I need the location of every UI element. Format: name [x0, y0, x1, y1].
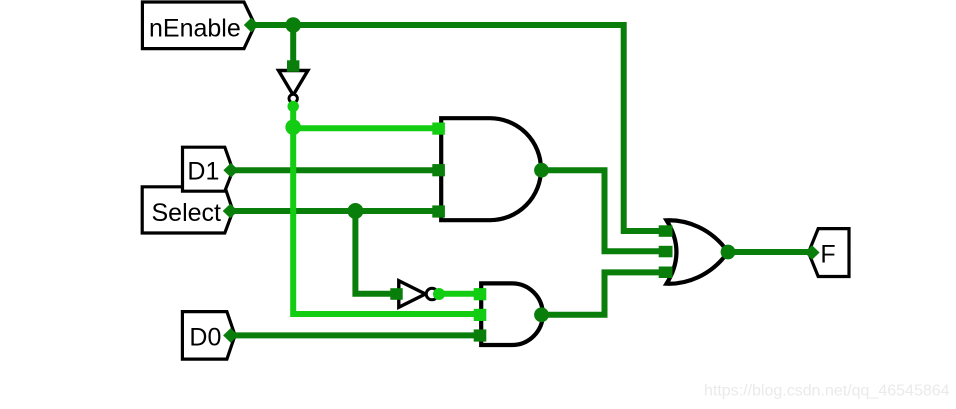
inverter NOT2 input pin — [390, 288, 402, 300]
connector diamond D1 — [223, 163, 238, 178]
svg-text:https://blog.csdn.net/qq_46545: https://blog.csdn.net/qq_46545864 — [704, 383, 950, 400]
svg-text:F: F — [820, 241, 835, 269]
svg-text:nEnable: nEnable — [149, 15, 241, 43]
inverter NOT2 output pin dot — [433, 288, 445, 300]
output label F — [809, 229, 850, 277]
wire Select branch to NOT2 input — [355, 211, 392, 294]
junction on Select wire — [347, 203, 363, 219]
wire NOT2 output to AND2 input 1 (high) — [438, 291, 479, 297]
svg-text:Select: Select — [152, 199, 222, 227]
or-gate U3 (3 inputs) — [667, 220, 729, 283]
and-gate U1 input pin 2 — [432, 164, 445, 176]
and-gate U2 output dot — [534, 307, 549, 322]
inverter NOT1 input pin — [287, 60, 299, 72]
input label D1 — [183, 147, 234, 191]
or-gate U3 input pin 3 — [659, 267, 673, 279]
wire D0 to AND2 input 3 — [227, 332, 479, 338]
connector diamond Select — [223, 204, 238, 219]
wire nEnable junction down to NOT1 input — [290, 25, 296, 66]
or-gate U3 input pin 1 — [659, 225, 673, 237]
and-gate U1 output dot — [534, 163, 549, 178]
connector diamond D0 — [223, 328, 238, 343]
junction below NOT1 (high) — [285, 119, 301, 135]
and-gate U1 input pin 3 — [432, 205, 445, 217]
wire junction to AND1 input 1 (high) — [293, 125, 438, 131]
wire AND2 output to OR bottom — [542, 272, 662, 314]
wire Select to AND1 input 3 — [228, 208, 438, 214]
and-gate U2 input pin 1 — [474, 288, 487, 300]
wire NOT1 output down to junction (high) — [290, 104, 296, 128]
inverter NOT2 (pointing right) — [399, 281, 438, 308]
wire junction down to AND2 input 2 (high) — [293, 128, 479, 314]
input label nEnable — [142, 2, 255, 49]
and-gate U1 (3 inputs) — [441, 118, 541, 220]
input label D0 — [182, 312, 235, 360]
or-gate U3 input pin 2 — [659, 246, 673, 257]
wire AND1 output to OR middle — [542, 170, 662, 251]
connector diamond nEnable — [244, 18, 259, 33]
junction on nEnable wire — [285, 17, 301, 33]
input label Select — [142, 187, 233, 233]
inverter NOT1 output pin dot — [288, 101, 299, 112]
svg-text:D0: D0 — [189, 323, 221, 351]
wire D1 to AND1 input 2 — [229, 167, 438, 173]
or-gate U3 output dot — [721, 245, 736, 260]
and-gate U2 input pin 3 — [474, 329, 487, 341]
svg-text:D1: D1 — [187, 158, 219, 186]
and-gate U1 input pin 1 — [432, 123, 445, 135]
and-gate U2 (3 inputs) — [481, 283, 543, 345]
wire nEnable to OR top — [251, 25, 661, 231]
inverter NOT1 (pointing down) — [279, 71, 308, 103]
connector diamond F — [804, 245, 819, 260]
and-gate U2 input pin 2 — [474, 309, 487, 321]
wire OR output to F — [728, 249, 812, 255]
